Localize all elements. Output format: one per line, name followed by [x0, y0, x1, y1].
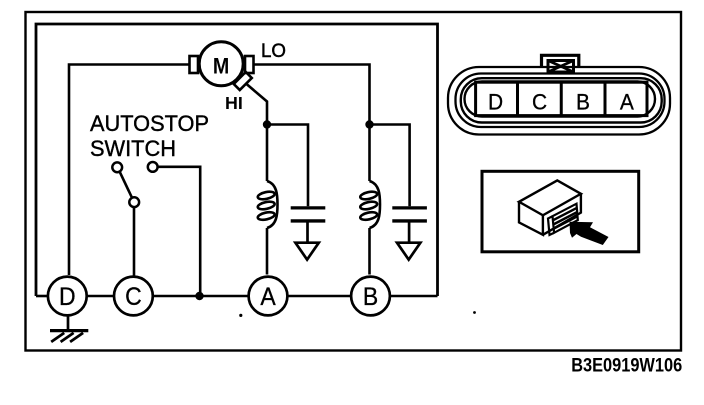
- svg-text:AUTOSTOP: AUTOSTOP: [90, 111, 209, 136]
- svg-text:LO: LO: [261, 41, 286, 62]
- svg-text:SWITCH: SWITCH: [90, 136, 176, 161]
- svg-text:B: B: [363, 283, 378, 311]
- svg-text:B3E0919W106: B3E0919W106: [571, 355, 682, 376]
- svg-text:D: D: [488, 89, 503, 115]
- svg-text:M: M: [213, 54, 229, 79]
- svg-text:D: D: [59, 283, 76, 311]
- svg-text:A: A: [260, 283, 275, 311]
- svg-text:C: C: [532, 89, 547, 115]
- svg-text:A: A: [620, 89, 634, 115]
- svg-text:B: B: [576, 89, 590, 115]
- svg-text:HI: HI: [225, 93, 243, 113]
- svg-text:C: C: [125, 283, 142, 311]
